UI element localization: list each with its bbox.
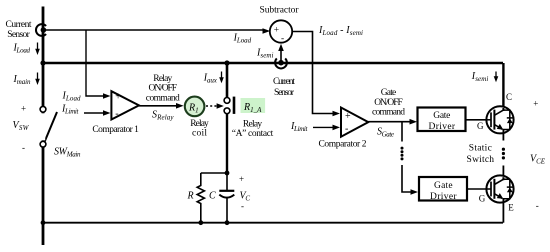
relay coil R1 (green circle)	[185, 97, 205, 117]
svg-text:C: C	[209, 191, 216, 202]
gate driver 1 box	[418, 108, 466, 132]
svg-text:-: -	[115, 109, 118, 120]
op-amp: comparator 2	[341, 108, 368, 137]
svg-text:Relay: Relay	[190, 119, 209, 129]
svg-text:Current: Current	[273, 77, 295, 87]
svg-text:-: -	[536, 201, 539, 211]
wire: comparator 2 output S_Gate	[368, 121, 410, 123]
svg-text:Gate: Gate	[433, 111, 450, 121]
transistor Q1 (IGBT, top)	[486, 106, 513, 133]
wire: Q2 emitter down to rail	[502, 199, 504, 223]
wire: RC top link	[201, 172, 227, 174]
svg-text:E: E	[508, 203, 514, 213]
mask for switch gap on main line	[41, 113, 45, 140]
wire: gate driver 1 to Q1 gate	[466, 119, 488, 121]
svg-text:Comparator 2: Comparator 2	[319, 139, 367, 149]
svg-text:Subtractor: Subtractor	[260, 6, 300, 16]
wire: relay contact branch lower to RC node	[226, 114, 228, 173]
dotted series continuation between IGBTs	[502, 148, 505, 151]
wire: comparator 1 output to relay coil	[139, 105, 177, 107]
wire: sensor 2 to subtractor - input (up arrow)	[280, 48, 282, 62]
node: rail/main line	[41, 220, 46, 225]
svg-text:Relay: Relay	[243, 119, 263, 129]
arrow into comparator 2 - input	[333, 125, 341, 131]
wire: I_Limit input to comparator 1	[84, 112, 104, 114]
svg-text:Comparator 1: Comparator 1	[92, 125, 139, 135]
svg-text:G: G	[477, 121, 484, 131]
svg-text:-: -	[241, 201, 244, 211]
diode D1 (antiparallel)	[507, 118, 513, 123]
wire: I_Load tap to comparator 1 (x=86)	[86, 30, 104, 96]
arrow into comparator 1 + input	[103, 93, 111, 99]
arrow into comparator 1 - input	[103, 110, 111, 116]
svg-text:ON/OFF: ON/OFF	[374, 98, 403, 108]
svg-text:+: +	[115, 92, 121, 103]
node: RC top junction	[225, 171, 230, 176]
svg-text:Relay: Relay	[153, 74, 172, 84]
svg-text:+: +	[239, 174, 244, 184]
node: rail/R	[198, 220, 203, 225]
svg-text:ON/OFF: ON/OFF	[149, 84, 178, 94]
wire: relay contact branch upper (x=227)	[226, 63, 229, 97]
wire: top horizontal I_Load wire A (y=30) from sensor to subtractor	[43, 29, 264, 31]
wire: bottom return rail (y=222.7)	[43, 222, 503, 224]
svg-text:+: +	[21, 104, 26, 114]
svg-text:Static: Static	[469, 144, 492, 154]
svg-text:+: +	[345, 111, 351, 122]
gate driver 2 box	[419, 177, 467, 201]
svg-text:command: command	[146, 93, 180, 103]
arrow into gate driver 1	[410, 119, 418, 125]
svg-text:Sensor: Sensor	[274, 88, 295, 98]
subtractor U1	[270, 20, 292, 42]
current sensor 1 (ring on main line)	[36, 24, 46, 36]
capacitor C (polarized)	[226, 173, 228, 191]
wire: thick horizontal bus B (y=63)	[43, 62, 503, 65]
svg-text:coil: coil	[192, 128, 207, 138]
arrow into relay coil R1	[176, 103, 184, 109]
node: rail/C	[225, 220, 230, 225]
diode D2 (antiparallel)	[507, 188, 513, 193]
arrow into gate driver 2	[411, 189, 419, 195]
dotted actuation link R1 to contact	[206, 105, 218, 107]
arrow into subtractor + input	[263, 28, 271, 34]
svg-text:Gate: Gate	[381, 88, 397, 98]
wire: gate driver 2 to Q2 gate	[467, 188, 487, 190]
wire: Q1 emitter stub down	[502, 130, 504, 141]
svg-text:G: G	[479, 193, 486, 203]
svg-text:command: command	[372, 107, 405, 117]
svg-text:“A” contact: “A” contact	[232, 129, 274, 139]
relay contact bar	[233, 97, 236, 114]
wire: S_Gate branch down to gate driver 2 (with dotted continuation)	[401, 122, 403, 142]
wire: subtractor output, down to comparator 2	[292, 32, 333, 114]
wire: vertical drop to static switch (x=503)	[502, 63, 504, 110]
resistor R	[197, 173, 204, 223]
svg-text:Sensor: Sensor	[7, 30, 30, 40]
svg-text:Current: Current	[6, 20, 32, 30]
current sensor 2 (ring on bus B)	[275, 58, 287, 68]
svg-text:-: -	[22, 143, 25, 153]
svg-text:Driver: Driver	[430, 192, 457, 202]
svg-text:Driver: Driver	[429, 122, 456, 132]
svg-text:R: R	[187, 191, 194, 202]
svg-text:-: -	[345, 123, 348, 134]
wire: Q2 collector stub	[502, 166, 504, 180]
svg-text:Switch: Switch	[467, 155, 495, 165]
op-amp: comparator 1	[111, 91, 139, 119]
svg-text:+: +	[274, 25, 279, 35]
node: junction main line / bus B	[40, 60, 45, 65]
relay contact "A" terminals	[224, 98, 230, 104]
wire: main vertical load line at left (x=43)	[42, 7, 45, 246]
wire: I_Limit input to comparator 2	[313, 126, 334, 128]
switch SW_Main (open)	[40, 106, 46, 112]
transistor Q2 (IGBT, bottom)	[486, 175, 513, 202]
arrow into comparator 2 + input	[333, 111, 341, 117]
label: R_1_A (green highlight)	[241, 98, 266, 113]
node: junction bus B / relay contact branch	[224, 60, 229, 65]
svg-text:+: +	[533, 99, 538, 109]
svg-text:Gate: Gate	[434, 181, 453, 191]
svg-text:C: C	[506, 92, 512, 102]
svg-text:-: -	[281, 34, 284, 44]
